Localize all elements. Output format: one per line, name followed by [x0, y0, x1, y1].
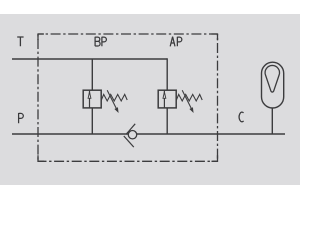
check valve seat upper line — [126, 124, 135, 135]
check valve seat lower line — [124, 136, 134, 147]
valve AP relief valve body — [158, 90, 176, 108]
gray canvas background — [0, 14, 300, 185]
valve BP adjustment arrow — [107, 90, 116, 108]
wire BP branch upper — [91, 59, 93, 90]
valve BP relief valve body — [83, 90, 101, 108]
check valve ball — [128, 131, 136, 139]
wire AP branch lower — [166, 108, 168, 134]
enclosure corner bottom-left — [38, 155, 44, 161]
valve BP spring — [101, 94, 127, 101]
label P — [19, 113, 24, 123]
valve AP flow arrow shaft — [163, 90, 165, 108]
valve AP adjustment arrow — [182, 90, 191, 108]
valve AP flow arrow head — [163, 92, 166, 98]
accumulator shell — [262, 62, 284, 108]
label T — [17, 37, 23, 46]
label BP — [95, 37, 106, 47]
label AP — [170, 37, 182, 47]
enclosure corner top-left — [38, 34, 44, 40]
valve BP flow arrow shaft — [89, 90, 91, 108]
wire BP branch lower — [91, 108, 93, 134]
accumulator bladder — [265, 65, 279, 92]
valve BP flow arrow head — [88, 92, 91, 98]
wire AP branch upper — [166, 58, 168, 90]
enclosure dash-dot boundary box — [38, 33, 218, 35]
valve AP adjustment arrowhead — [189, 107, 193, 113]
label C — [239, 112, 243, 122]
wire P line (pressure line) — [12, 133, 285, 135]
accumulator drop wire — [271, 108, 273, 134]
wire T line (tank line) — [12, 58, 167, 60]
enclosure corner bottom-right — [212, 155, 218, 161]
valve BP adjustment arrowhead — [114, 107, 118, 113]
enclosure corner top-right — [212, 34, 218, 40]
valve AP spring — [176, 94, 202, 101]
